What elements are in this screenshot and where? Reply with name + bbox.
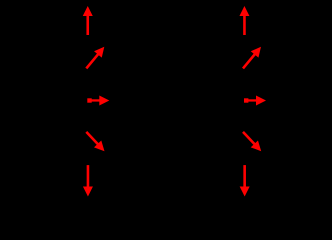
right fan: arrow down (240, 165, 250, 196)
left fan: arrow up (83, 6, 93, 35)
left fan: arrow right (87, 95, 109, 105)
right fan: arrow down-right (243, 132, 261, 151)
right fan: arrow right (244, 95, 266, 105)
left fan: arrow down-right (86, 132, 104, 151)
right fan: arrow up-right (243, 47, 261, 69)
left fan: arrow down (83, 165, 93, 196)
left fan: arrow up-right (86, 47, 104, 69)
right fan: arrow up (239, 6, 249, 35)
